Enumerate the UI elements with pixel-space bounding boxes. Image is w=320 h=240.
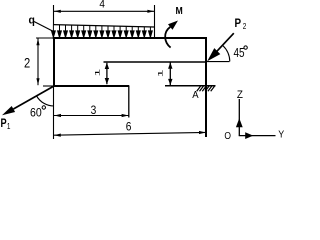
svg-text:M: M <box>176 5 183 16</box>
beam top edge <box>53 37 207 39</box>
support A hatching <box>197 86 215 91</box>
extension line below left corner (dims 3,6 and 60deg ref) <box>53 86 55 139</box>
moment M arc <box>165 27 170 48</box>
dimension 3 line <box>54 115 129 117</box>
q leader line <box>34 22 54 32</box>
dimension 2 line <box>37 38 39 85</box>
force P1 arrowhead <box>2 106 15 115</box>
extension line left of top edge (dim 2) <box>36 37 53 39</box>
mid line extension (45deg reference) <box>206 61 230 63</box>
force P1 line <box>13 86 54 109</box>
svg-text:1: 1 <box>94 69 101 77</box>
svg-text:2: 2 <box>24 55 30 70</box>
dimension 1 right top arrow <box>168 62 172 68</box>
force P2 arrowhead <box>207 48 220 61</box>
beam bottom-left edge <box>53 85 129 87</box>
beam mid step line <box>104 61 207 63</box>
force P2 line <box>217 33 234 52</box>
dimension 4 left arrow <box>54 10 61 13</box>
dimension 2 bottom arrow <box>36 78 39 85</box>
svg-text:45: 45 <box>234 47 245 60</box>
45deg degree symbol <box>244 46 247 49</box>
dimension 2 top arrow <box>36 39 39 46</box>
45deg arc <box>223 46 230 62</box>
extension line right end of load (dim 4) <box>154 5 156 38</box>
svg-text:3: 3 <box>91 104 97 117</box>
svg-text:Y: Y <box>278 129 284 141</box>
dimension 6 line <box>54 132 206 135</box>
moment M arrowhead <box>168 21 178 30</box>
dimension 4 right arrow <box>147 10 154 13</box>
svg-text:P: P <box>1 118 7 130</box>
distributed load q top line <box>53 25 154 27</box>
svg-text:Z: Z <box>237 89 244 101</box>
extension line above left corner (dim 4) <box>53 5 55 25</box>
extension line left of bottom edge (dim 2) <box>43 85 53 87</box>
dimension 1 left line <box>106 63 108 84</box>
axis Y arrowhead <box>245 132 253 139</box>
axis Z arrowhead <box>236 118 243 127</box>
axis Z line <box>238 99 240 136</box>
svg-text:O: O <box>224 131 231 141</box>
dimension 6 left arrow <box>54 134 61 137</box>
60deg degree symbol <box>42 106 45 109</box>
svg-text:2: 2 <box>243 21 247 31</box>
60deg arc <box>37 96 55 106</box>
svg-text:1: 1 <box>157 69 164 77</box>
svg-text:1: 1 <box>7 121 11 131</box>
svg-text:4: 4 <box>99 0 105 11</box>
beam left edge <box>53 37 55 87</box>
dimension 1 left bottom arrow <box>105 78 109 84</box>
dimension 1 left top arrow <box>105 63 109 69</box>
extension line below step corner (dim 3) <box>128 86 130 118</box>
beam right edge <box>205 37 207 137</box>
support A ground line <box>165 85 216 87</box>
svg-text:60: 60 <box>30 107 42 120</box>
distributed load arrows <box>52 25 153 38</box>
svg-text:6: 6 <box>126 121 132 134</box>
svg-text:A: A <box>192 90 199 101</box>
dimension 1 right bottom arrow <box>168 79 172 85</box>
dimension 3 left arrow <box>54 114 61 117</box>
dimension 6 right arrow <box>199 131 206 134</box>
dimension 1 right line <box>169 62 171 85</box>
svg-text:P: P <box>235 17 242 30</box>
axis Y line <box>239 135 276 137</box>
svg-text:q: q <box>29 14 35 26</box>
dimension 4 line <box>54 10 155 12</box>
dimension 3 right arrow <box>122 114 129 117</box>
